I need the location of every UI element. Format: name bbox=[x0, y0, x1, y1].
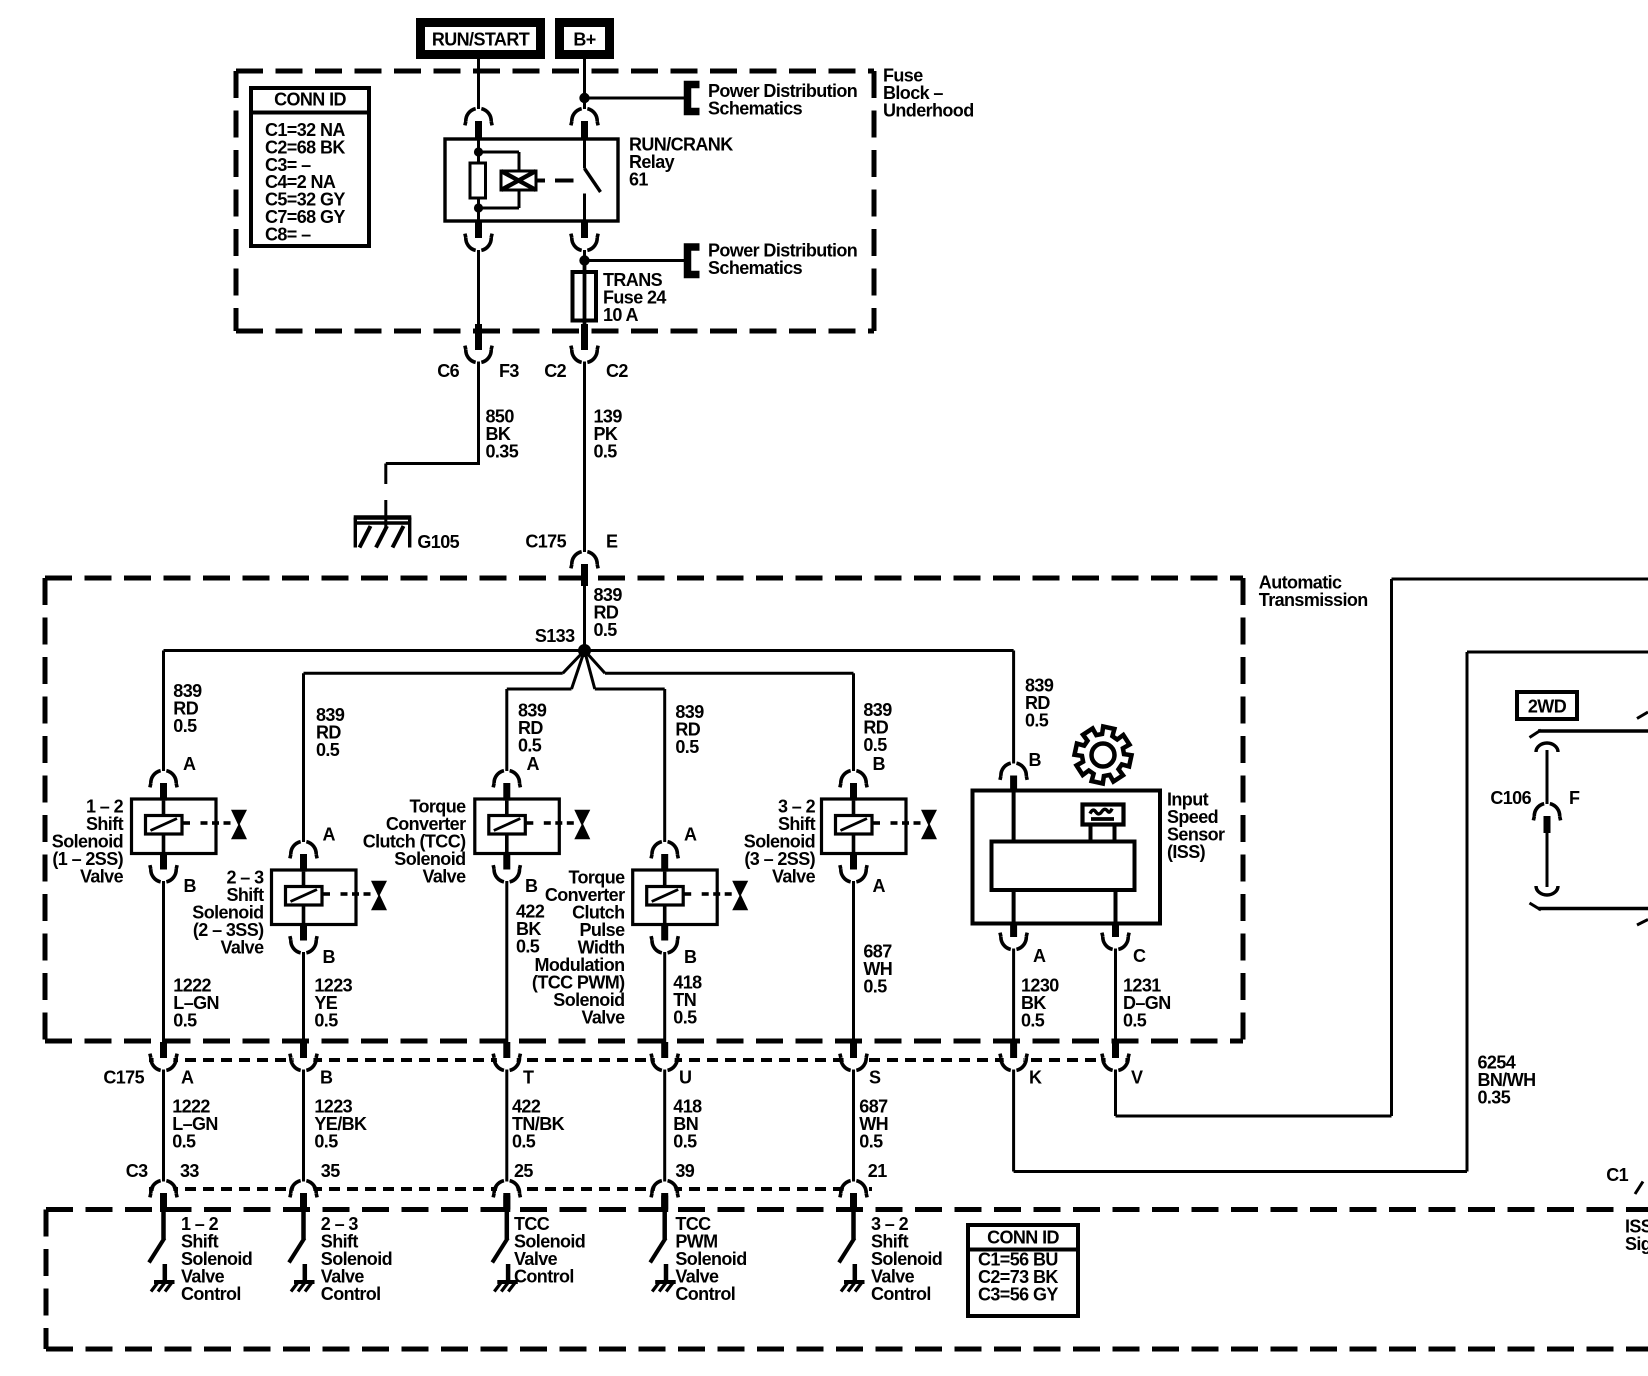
svg-text:2WD: 2WD bbox=[1528, 697, 1567, 717]
svg-text:0.5: 0.5 bbox=[518, 736, 542, 756]
svg-text:C1: C1 bbox=[1606, 1165, 1628, 1185]
svg-text:Control: Control bbox=[871, 1284, 931, 1304]
svg-text:Schematics: Schematics bbox=[708, 99, 803, 119]
svg-text:0.35: 0.35 bbox=[1478, 1088, 1511, 1108]
svg-text:A: A bbox=[181, 1068, 194, 1088]
svg-text:A: A bbox=[1033, 946, 1046, 966]
svg-text:CONN ID: CONN ID bbox=[274, 90, 346, 110]
svg-text:Transmission: Transmission bbox=[1259, 590, 1368, 610]
svg-text:Valve: Valve bbox=[80, 867, 124, 887]
svg-text:B: B bbox=[1029, 750, 1042, 770]
svg-text:C3=56 GY: C3=56 GY bbox=[978, 1285, 1058, 1305]
svg-text:C3: C3 bbox=[126, 1161, 148, 1181]
svg-text:0.5: 0.5 bbox=[594, 442, 618, 462]
svg-text:0.5: 0.5 bbox=[863, 735, 887, 755]
svg-text:B: B bbox=[684, 947, 697, 967]
svg-text:B+: B+ bbox=[573, 30, 595, 50]
svg-text:C106: C106 bbox=[1490, 788, 1531, 808]
svg-text:T: T bbox=[523, 1068, 534, 1088]
svg-text:0.5: 0.5 bbox=[516, 937, 540, 957]
svg-text:0.5: 0.5 bbox=[1021, 1011, 1045, 1031]
svg-text:G105: G105 bbox=[417, 532, 459, 552]
svg-text:(ISS): (ISS) bbox=[1167, 842, 1206, 862]
svg-text:0.5: 0.5 bbox=[172, 1132, 196, 1152]
svg-text:C175: C175 bbox=[103, 1068, 144, 1088]
svg-text:B: B bbox=[184, 876, 197, 896]
svg-text:C2: C2 bbox=[544, 361, 566, 381]
svg-text:Control: Control bbox=[514, 1267, 574, 1287]
svg-text:A: A bbox=[527, 754, 540, 774]
svg-text:Valve: Valve bbox=[581, 1008, 625, 1028]
svg-text:35: 35 bbox=[321, 1161, 340, 1181]
svg-text:C175: C175 bbox=[525, 532, 566, 552]
svg-text:E: E bbox=[606, 532, 618, 552]
svg-text:F3: F3 bbox=[499, 361, 519, 381]
svg-text:C: C bbox=[1133, 946, 1146, 966]
svg-text:0.5: 0.5 bbox=[512, 1132, 536, 1152]
svg-text:CONN ID: CONN ID bbox=[987, 1228, 1059, 1248]
svg-text:Signal: Signal bbox=[1625, 1234, 1648, 1254]
svg-text:0.5: 0.5 bbox=[314, 1132, 338, 1152]
svg-text:0.5: 0.5 bbox=[316, 740, 340, 760]
svg-text:0.5: 0.5 bbox=[173, 1011, 197, 1031]
svg-text:A: A bbox=[684, 825, 697, 845]
svg-text:V: V bbox=[1131, 1068, 1143, 1088]
svg-text:A: A bbox=[873, 876, 886, 896]
svg-text:0.5: 0.5 bbox=[314, 1011, 338, 1031]
svg-text:21: 21 bbox=[868, 1161, 887, 1181]
svg-text:C8= –: C8= – bbox=[265, 224, 311, 244]
svg-text:10 A: 10 A bbox=[603, 305, 639, 325]
svg-text:B: B bbox=[323, 947, 336, 967]
svg-text:0.35: 0.35 bbox=[486, 442, 519, 462]
svg-text:0.5: 0.5 bbox=[173, 716, 197, 736]
svg-text:U: U bbox=[679, 1068, 691, 1088]
svg-text:Valve: Valve bbox=[772, 867, 816, 887]
svg-text:C6: C6 bbox=[437, 361, 459, 381]
svg-text:Control: Control bbox=[181, 1284, 241, 1304]
svg-text:Valve: Valve bbox=[422, 867, 466, 887]
svg-text:0.5: 0.5 bbox=[594, 620, 618, 640]
svg-text:S133: S133 bbox=[535, 626, 575, 646]
svg-text:25: 25 bbox=[514, 1161, 533, 1181]
svg-text:Control: Control bbox=[321, 1284, 381, 1304]
svg-text:Schematics: Schematics bbox=[708, 258, 803, 278]
svg-text:33: 33 bbox=[180, 1161, 199, 1181]
svg-text:C2: C2 bbox=[606, 361, 628, 381]
svg-text:B: B bbox=[525, 876, 538, 896]
svg-text:A: A bbox=[183, 754, 196, 774]
svg-text:F: F bbox=[1569, 788, 1580, 808]
svg-text:39: 39 bbox=[675, 1161, 694, 1181]
svg-text:Control: Control bbox=[675, 1284, 735, 1304]
svg-text:Underhood: Underhood bbox=[883, 101, 974, 121]
svg-text:K: K bbox=[1029, 1068, 1042, 1088]
svg-text:B: B bbox=[320, 1068, 333, 1088]
svg-text:RUN/START: RUN/START bbox=[432, 30, 530, 50]
svg-text:0.5: 0.5 bbox=[1123, 1011, 1147, 1031]
svg-text:B: B bbox=[873, 754, 886, 774]
svg-text:61: 61 bbox=[629, 170, 648, 190]
svg-text:0.5: 0.5 bbox=[859, 1132, 883, 1152]
svg-text:S: S bbox=[869, 1068, 881, 1088]
svg-text:0.5: 0.5 bbox=[673, 1008, 697, 1028]
svg-text:Valve: Valve bbox=[220, 938, 264, 958]
svg-text:0.5: 0.5 bbox=[1025, 711, 1049, 731]
svg-text:0.5: 0.5 bbox=[673, 1132, 697, 1152]
svg-text:A: A bbox=[323, 825, 336, 845]
svg-text:0.5: 0.5 bbox=[863, 977, 887, 997]
svg-text:0.5: 0.5 bbox=[675, 737, 699, 757]
